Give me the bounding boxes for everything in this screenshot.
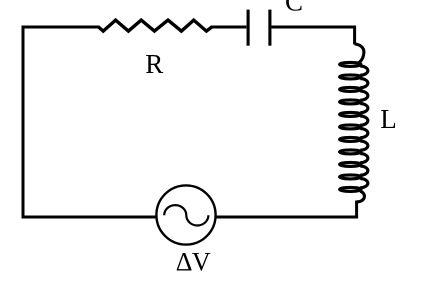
coil entry hook: [355, 44, 364, 63]
inductor L coil: [340, 44, 368, 202]
AC source circle: [156, 185, 215, 244]
svg-text:R: R: [145, 49, 163, 79]
coil turn loops (11 ellipses): [340, 62, 361, 66]
coil exit hook: [357, 191, 365, 202]
capacitor C plates: [248, 10, 270, 46]
sine wave inside source: [164, 205, 208, 225]
svg-text:ΔV: ΔV: [176, 248, 211, 277]
wire capacitor to top-right corner, down to coil: [272, 27, 355, 45]
svg-text:L: L: [380, 104, 397, 134]
wire coil to bottom-right corner and to source: [215, 201, 356, 218]
coil right-side connecting arcs: [360, 66, 368, 75]
svg-text:C: C: [285, 0, 303, 17]
wire resistor to capacitor: [211, 26, 247, 29]
wire left vertical + top-left segment + bottom-left segment: [23, 27, 157, 217]
resistor R: [99, 20, 212, 31]
